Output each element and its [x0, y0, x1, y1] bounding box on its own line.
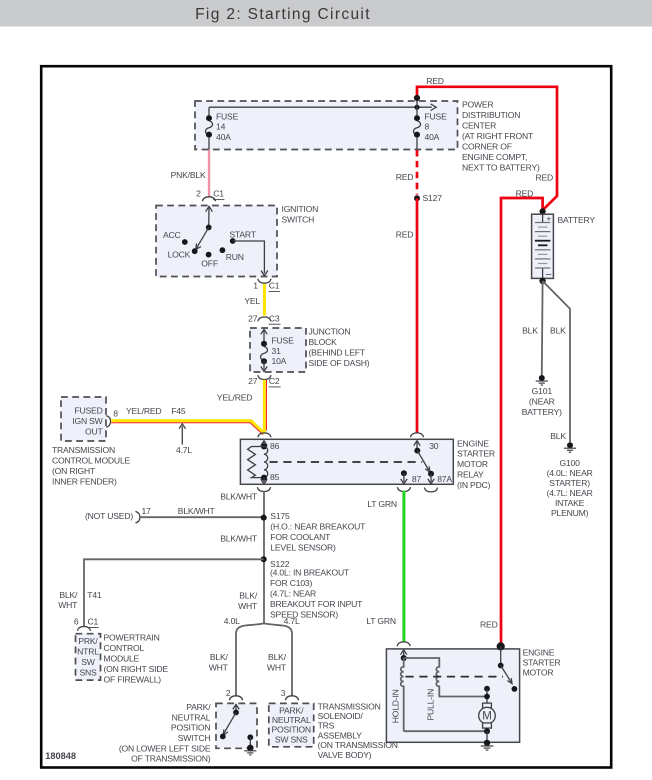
- svg-text:S127: S127: [423, 193, 443, 203]
- node OFF: [201, 252, 218, 269]
- node battery positive: [540, 208, 546, 214]
- svg-text:27: 27: [248, 376, 258, 386]
- node RUN: [220, 247, 244, 261]
- node battery negative: [539, 278, 545, 284]
- svg-text:86: 86: [270, 441, 280, 451]
- svg-text:CONTROL MODULE: CONTROL MODULE: [52, 456, 131, 466]
- svg-text:40A: 40A: [216, 132, 231, 142]
- svg-text:PNK/BLK: PNK/BLK: [171, 170, 206, 180]
- svg-text:POSITION: POSITION: [271, 725, 310, 735]
- svg-text:HOLD-IN: HOLD-IN: [391, 689, 401, 723]
- svg-text:BLK/: BLK/: [268, 652, 287, 662]
- connector relay pin 86 cavity: [258, 433, 271, 437]
- svg-text:BLK: BLK: [550, 431, 566, 441]
- wire BLK/WHT 4.7L branch: [267, 633, 292, 696]
- svg-text:C1: C1: [269, 281, 280, 291]
- relay pin 86: [261, 441, 280, 452]
- svg-text:SPEED SENSOR): SPEED SENSOR): [270, 609, 338, 619]
- starter case ground: [481, 740, 494, 750]
- wire YEL/RED junction block to relay: [217, 380, 266, 434]
- svg-text:SW SNS: SW SNS: [275, 734, 308, 744]
- svg-text:S175: S175: [270, 511, 290, 521]
- starter solenoid feed arrow: [401, 650, 407, 658]
- power distribution center box: [195, 99, 540, 172]
- svg-text:PARK/: PARK/: [186, 702, 211, 712]
- svg-text:FUSE: FUSE: [425, 111, 448, 121]
- svg-text:−: −: [545, 269, 551, 281]
- svg-text:4.7L: 4.7L: [176, 445, 192, 455]
- svg-text:YEL/RED: YEL/RED: [126, 406, 161, 416]
- svg-text:LT GRN: LT GRN: [366, 616, 396, 626]
- svg-text:(4.0L: IN BREAKOUT: (4.0L: IN BREAKOUT: [270, 568, 350, 578]
- wire BLK/WHT relay 85 to S122: [220, 491, 264, 624]
- svg-text:ACC: ACC: [163, 230, 181, 240]
- svg-text:3: 3: [281, 688, 286, 698]
- svg-text:1: 1: [253, 281, 258, 291]
- svg-text:OFF: OFF: [201, 259, 218, 269]
- svg-text:STARTER): STARTER): [549, 478, 590, 488]
- svg-text:INNER FENDER): INNER FENDER): [52, 476, 117, 486]
- svg-text:ENGINE: ENGINE: [523, 648, 555, 658]
- svg-text:OF TRANSMISSION): OF TRANSMISSION): [131, 754, 211, 764]
- svg-text:NEUTRAL: NEUTRAL: [272, 715, 311, 725]
- svg-text:RED: RED: [396, 230, 414, 240]
- svg-text:LT GRN: LT GRN: [367, 499, 397, 509]
- svg-text:G100: G100: [559, 458, 580, 468]
- svg-text:(4.7L: NEAR: (4.7L: NEAR: [547, 488, 593, 498]
- wire BLK battery to G100: [543, 281, 570, 442]
- starter solenoid switch: [497, 642, 518, 691]
- wire LT GRN relay 87 to starter: [366, 491, 404, 642]
- starter contact stub: [484, 686, 490, 703]
- svg-text:RELAY: RELAY: [457, 470, 484, 480]
- connector C3 pin 27 junction block: [248, 313, 280, 324]
- relay coil: [248, 447, 268, 478]
- svg-text:CENTER: CENTER: [462, 120, 496, 130]
- svg-text:POWERTRAIN: POWERTRAIN: [104, 632, 160, 642]
- wire PNK/BLK fuse14 to ignition switch: [171, 150, 209, 197]
- ground G100: [547, 442, 593, 518]
- svg-text:WHT: WHT: [238, 601, 258, 611]
- svg-text:BATTERY): BATTERY): [522, 407, 562, 417]
- svg-text:RUN: RUN: [226, 252, 244, 262]
- engine starter motor relay box: [240, 438, 495, 490]
- solenoid actuation dashed link: [406, 676, 504, 678]
- connector relay pin 87 cavity: [397, 487, 410, 491]
- svg-text:2: 2: [196, 189, 201, 199]
- svg-text:NTRL: NTRL: [77, 647, 99, 657]
- svg-text:BLK/WHT: BLK/WHT: [178, 506, 216, 516]
- svg-text:IGN SW: IGN SW: [72, 416, 103, 426]
- svg-text:NEUTRAL: NEUTRAL: [172, 712, 211, 722]
- svg-text:ENGINE COMPT,: ENGINE COMPT,: [462, 152, 527, 162]
- connector C1 pin 1 ignition output: [253, 279, 280, 292]
- svg-text:40A: 40A: [425, 132, 440, 142]
- svg-text:RED: RED: [396, 172, 414, 182]
- svg-text:RED: RED: [516, 189, 534, 199]
- svg-text:START: START: [229, 230, 256, 240]
- svg-text:T41: T41: [87, 590, 102, 600]
- svg-text:SIDE OF DASH): SIDE OF DASH): [309, 358, 370, 368]
- connector relay pin 87A cavity: [424, 488, 437, 492]
- svg-text:Fig 2: Starting Circuit: Fig 2: Starting Circuit: [195, 6, 371, 23]
- svg-text:C1: C1: [88, 617, 99, 627]
- wire BLK/WHT stub to S175: [140, 506, 264, 517]
- svg-text:8: 8: [113, 408, 118, 418]
- svg-text:BLK: BLK: [550, 325, 566, 335]
- svg-text:ENGINE: ENGINE: [457, 438, 489, 448]
- svg-text:C3: C3: [269, 313, 280, 323]
- svg-text:JUNCTION: JUNCTION: [309, 327, 351, 337]
- svg-text:(ON RIGHT SIDE: (ON RIGHT SIDE: [104, 664, 169, 674]
- svg-text:SOLENOID/: SOLENOID/: [318, 711, 364, 721]
- svg-text:31: 31: [272, 346, 282, 356]
- junction block box: [250, 327, 370, 372]
- node fuse8 top: [414, 95, 420, 101]
- svg-text:PLENUM): PLENUM): [551, 508, 589, 518]
- connector relay pin 30 cavity: [410, 433, 423, 437]
- relay pin 85: [261, 472, 280, 484]
- svg-text:DISTRIBUTION: DISTRIBUTION: [462, 110, 520, 120]
- ignition switch lever: [196, 225, 212, 250]
- svg-text:PARK/: PARK/: [279, 705, 304, 715]
- hold-in winding: [391, 658, 404, 731]
- svg-text:STARTER: STARTER: [523, 658, 561, 668]
- powertrain control module box: [76, 632, 169, 684]
- motor M: [479, 703, 496, 731]
- svg-text:MODULE: MODULE: [104, 653, 140, 663]
- svg-text:OF FIREWALL): OF FIREWALL): [104, 674, 162, 684]
- svg-text:(4.7L: NEAR: (4.7L: NEAR: [270, 589, 316, 599]
- svg-text:8: 8: [425, 122, 430, 132]
- svg-text:(BEHIND LEFT: (BEHIND LEFT: [309, 347, 366, 357]
- svg-text:PRK/: PRK/: [78, 636, 98, 646]
- fuse F31 10A: [261, 329, 295, 371]
- svg-text:VALVE BODY): VALVE BODY): [318, 750, 372, 760]
- svg-text:SNS: SNS: [79, 668, 97, 678]
- relay pin 30: [414, 441, 439, 454]
- svg-text:87A: 87A: [437, 474, 452, 484]
- node ACC: [163, 230, 188, 245]
- relay switch blade: [417, 451, 430, 472]
- svg-text:FUSE: FUSE: [272, 335, 295, 345]
- svg-text:C2: C2: [269, 376, 280, 386]
- svg-text:+: +: [546, 213, 551, 223]
- wire BLK/WHT T41 S122 to PCM: [58, 559, 263, 627]
- svg-text:M: M: [482, 711, 492, 723]
- svg-text:CONTROL: CONTROL: [104, 643, 145, 653]
- node START: [229, 230, 256, 244]
- svg-text:LEVEL SENSOR): LEVEL SENSOR): [270, 543, 336, 553]
- connector C2 pin 27 junction block: [248, 375, 281, 387]
- svg-text:2: 2: [226, 688, 231, 698]
- PNP switch lever: [220, 710, 239, 740]
- svg-text:ASSEMBLY: ASSEMBLY: [318, 730, 363, 740]
- svg-text:WHT: WHT: [209, 662, 229, 672]
- connector relay pin 85 cavity: [257, 487, 270, 491]
- wire START output: [233, 241, 268, 276]
- engine starter motor box: [386, 648, 560, 743]
- svg-text:TRANSMISSION: TRANSMISSION: [52, 445, 115, 455]
- svg-text:TRS: TRS: [318, 721, 335, 731]
- connector pin 3 TRS: [281, 688, 299, 700]
- svg-text:NEXT TO BATTERY): NEXT TO BATTERY): [462, 162, 540, 172]
- splice S175: [261, 511, 366, 553]
- battery: [532, 213, 596, 281]
- connector pin 17 not used: [85, 506, 151, 523]
- svg-text:(IN PDC): (IN PDC): [457, 480, 491, 490]
- svg-text:BREAKOUT FOR INPUT: BREAKOUT FOR INPUT: [270, 599, 363, 609]
- svg-text:YEL: YEL: [244, 296, 260, 306]
- svg-text:POWER: POWER: [462, 99, 493, 109]
- svg-text:BLK/: BLK/: [210, 652, 229, 662]
- svg-text:85: 85: [270, 472, 280, 482]
- node LOCK: [168, 248, 198, 259]
- svg-text:MOTOR: MOTOR: [523, 668, 554, 678]
- svg-text:FOR COOLANT: FOR COOLANT: [270, 532, 331, 542]
- svg-text:(NOT USED): (NOT USED): [85, 511, 133, 521]
- svg-text:TRANSMISSION: TRANSMISSION: [318, 701, 381, 711]
- svg-text:WHT: WHT: [58, 600, 78, 610]
- fuse F8 40A: [414, 101, 448, 150]
- connector pin 2 PNP switch: [226, 688, 243, 700]
- svg-text:BLK/WHT: BLK/WHT: [220, 534, 258, 544]
- svg-text:LOCK: LOCK: [168, 250, 191, 260]
- svg-text:BATTERY: BATTERY: [558, 215, 596, 225]
- svg-text:(4.0L: NEAR: (4.0L: NEAR: [547, 468, 593, 478]
- svg-text:BLK: BLK: [522, 325, 538, 335]
- svg-text:BLK/WHT: BLK/WHT: [220, 491, 258, 501]
- outer frame: [41, 66, 611, 767]
- svg-text:SW: SW: [81, 657, 96, 667]
- svg-text:27: 27: [248, 313, 258, 323]
- transmission control module box: [52, 397, 131, 486]
- svg-text:BLK/: BLK/: [59, 590, 78, 600]
- splice S122: [261, 556, 363, 619]
- 4.7L engine pointer arrow: [176, 424, 192, 455]
- svg-text:POSITION: POSITION: [171, 723, 210, 733]
- svg-text:(H.O.: NEAR BREAKOUT: (H.O.: NEAR BREAKOUT: [270, 522, 366, 532]
- wire RED fused (dashed) fuse8 to S127: [396, 150, 417, 195]
- connector C1 pin 6 PCM: [74, 617, 99, 631]
- splice S127: [414, 193, 442, 203]
- svg-text:FUSE: FUSE: [216, 111, 239, 121]
- svg-text:CORNER OF: CORNER OF: [462, 141, 512, 151]
- svg-text:C1: C1: [213, 189, 224, 199]
- wire RED S127 to relay pin30: [396, 198, 417, 433]
- wire RED battery feed to fuse 8: [417, 76, 557, 210]
- svg-text:OUT: OUT: [85, 426, 103, 436]
- wire bus inside PDC with arrow: [209, 104, 436, 111]
- connector starter solenoid cavity: [397, 642, 410, 646]
- svg-text:PULL-IN: PULL-IN: [425, 689, 435, 721]
- relay pin 87A: [428, 471, 453, 485]
- pull-in winding: [404, 658, 487, 720]
- park/neutral position switch box: [119, 702, 257, 764]
- svg-text:G101: G101: [532, 386, 553, 396]
- node junction fuse8 feed: [414, 105, 419, 110]
- svg-text:STARTER: STARTER: [457, 449, 495, 459]
- svg-text:17: 17: [142, 506, 152, 516]
- svg-text:YEL/RED: YEL/RED: [217, 392, 252, 402]
- svg-text:RED: RED: [535, 172, 553, 182]
- wire BLK/WHT 4.0L branch: [209, 633, 236, 696]
- svg-text:(ON RIGHT: (ON RIGHT: [52, 466, 96, 476]
- svg-text:FUSED: FUSED: [74, 406, 102, 416]
- ignition feed arrow: [206, 206, 213, 227]
- svg-text:WHT: WHT: [267, 662, 287, 672]
- transmission solenoid/TRS assembly box: [269, 701, 398, 760]
- wire BLK battery to G101: [522, 281, 542, 375]
- connector pin 8 TCM: [106, 408, 118, 427]
- svg-text:SWITCH: SWITCH: [178, 733, 211, 743]
- fuse F14 40A: [206, 107, 239, 150]
- wire RED battery to starter: [480, 189, 543, 645]
- node solenoid feed: [401, 655, 407, 661]
- svg-text:(NEAR: (NEAR: [529, 397, 555, 407]
- svg-text:14: 14: [216, 122, 226, 132]
- PNP switch feed arrow: [233, 705, 239, 713]
- svg-text:180848: 180848: [45, 751, 76, 761]
- svg-text:SWITCH: SWITCH: [282, 214, 315, 224]
- svg-text:BLOCK: BLOCK: [309, 337, 338, 347]
- svg-text:(AT RIGHT FRONT: (AT RIGHT FRONT: [462, 131, 534, 141]
- svg-text:4.0L: 4.0L: [224, 616, 240, 626]
- wire split 4.0L / 4.7L: [224, 616, 300, 633]
- PNP switch ground contact: [244, 734, 256, 755]
- relay actuation dashed link: [270, 461, 423, 463]
- svg-text:INTAKE: INTAKE: [555, 498, 585, 508]
- svg-text:RED: RED: [426, 76, 444, 86]
- svg-text:(ON LOWER LEFT SIDE: (ON LOWER LEFT SIDE: [119, 743, 211, 753]
- svg-text:87: 87: [412, 474, 422, 484]
- svg-text:6: 6: [74, 617, 79, 627]
- relay pin 87: [401, 470, 422, 484]
- svg-text:4.7L: 4.7L: [284, 616, 300, 626]
- svg-text:30: 30: [429, 441, 439, 451]
- starter internal return wire: [404, 728, 490, 742]
- svg-text:IGNITION: IGNITION: [282, 204, 319, 214]
- svg-text:F45: F45: [171, 406, 186, 416]
- wire YEL/RED F45 TCM to relay: [111, 406, 264, 435]
- ignition switch box: [156, 204, 318, 277]
- svg-text:MOTOR: MOTOR: [457, 459, 488, 469]
- svg-text:RED: RED: [480, 619, 498, 629]
- connector C1 pin 2 ignition: [196, 189, 224, 202]
- svg-text:BLK/: BLK/: [239, 591, 258, 601]
- ground G101: [522, 375, 562, 417]
- title bar: [0, 0, 652, 27]
- wire YEL ignition to junction block: [244, 284, 264, 316]
- svg-text:FOR C103): FOR C103): [270, 578, 312, 588]
- svg-text:10A: 10A: [272, 356, 287, 366]
